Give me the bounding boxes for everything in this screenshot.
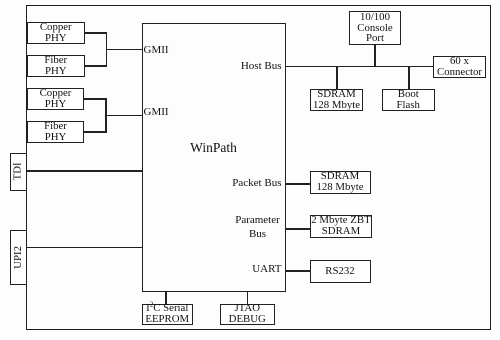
host bus wire <box>285 66 433 68</box>
Boot Flash box <box>382 89 435 112</box>
label GMII 2 <box>144 106 169 118</box>
wire drop to I2C EEPROM <box>165 291 167 304</box>
wire GMII 1 to WinPath <box>106 49 143 51</box>
60 x Connector box <box>433 56 486 78</box>
label Parameter Bus <box>233 213 282 241</box>
copper PHY 1 box <box>27 22 85 44</box>
2 Mbyte ZBT SDRAM box <box>310 215 372 239</box>
SDRAM 128 Mbyte box (host) <box>310 89 363 112</box>
label WinPath <box>142 140 286 156</box>
UART wire <box>285 270 310 272</box>
fiber PHY 1 box <box>27 55 85 77</box>
label GMII 1 <box>144 44 169 56</box>
label UART <box>252 263 281 275</box>
fiber PHY 2 box <box>27 121 84 143</box>
label Host Bus <box>241 60 282 72</box>
label Packet Bus <box>232 177 281 189</box>
wire copper2 to bracket <box>84 98 107 100</box>
UPI2 box <box>10 230 28 285</box>
packet bus wire <box>285 183 310 185</box>
bracket 1 vertical <box>106 32 108 67</box>
wire fiber1 to bracket <box>84 65 107 67</box>
JTAO DEBUG box <box>220 304 275 326</box>
wire fiber2 to bracket <box>84 131 107 133</box>
bracket 2 vertical <box>105 98 107 133</box>
parameter bus wire <box>285 228 311 230</box>
I2C Serial EEPROM box <box>142 304 194 326</box>
wire GMII 2 to WinPath <box>105 115 143 117</box>
wire drop to Boot Flash <box>408 66 410 89</box>
wire copper1 to bracket <box>84 32 107 34</box>
wire UPI2 to WinPath <box>27 247 142 249</box>
wire drop to JTAO DEBUG <box>247 291 249 304</box>
10/100 Console Port box <box>349 11 401 45</box>
wire TDI to WinPath <box>27 170 142 172</box>
copper PHY 2 box <box>27 88 84 110</box>
RS232 box <box>310 260 371 283</box>
wire console port drop <box>374 45 376 67</box>
TDI box <box>10 153 28 191</box>
SDRAM 128 Mbyte box (packet) <box>310 171 371 194</box>
wire drop to SDRAM1 <box>336 66 338 89</box>
WinPath U1 box <box>142 23 286 293</box>
